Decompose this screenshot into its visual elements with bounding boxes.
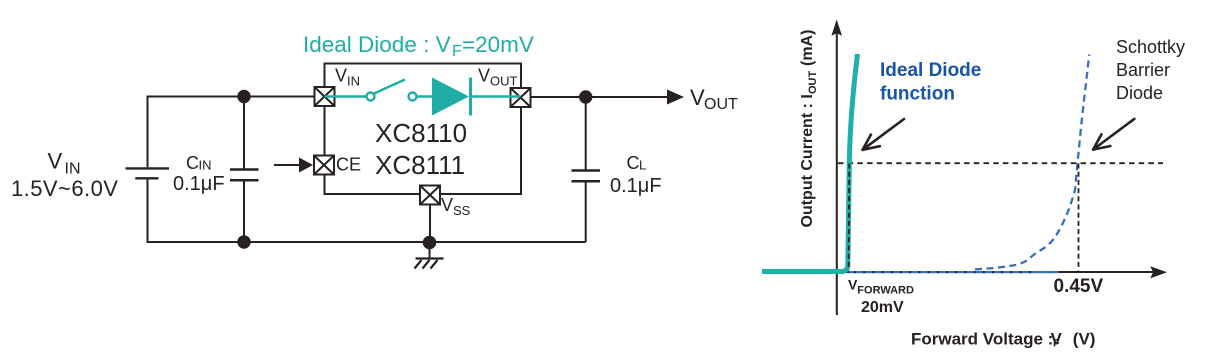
schottky diode curve (blue dashed): [849, 55, 1089, 273]
svg-text:L: L: [639, 158, 646, 173]
ideal diode curve (teal): [762, 54, 858, 272]
y-axis: [836, 28, 838, 315]
svg-text:OUT: OUT: [704, 96, 738, 113]
junction: VSS / bottom rail: [423, 236, 437, 250]
wire: CL bottom to bottom rail: [585, 182, 587, 242]
svg-text:V: V: [690, 85, 705, 110]
svg-text:C: C: [186, 153, 199, 173]
wire: CIN top to top rail: [243, 97, 245, 169]
junction: VOUT rail / CL: [579, 90, 592, 103]
IC U1 XC8110/XC8111 body: [325, 64, 522, 195]
wire: CL top: [585, 97, 587, 170]
label "Ideal Diode function": [880, 60, 981, 105]
svg-text:CE: CE: [336, 154, 361, 174]
wire: battery top to top rail: [147, 97, 149, 168]
junction: bottom rail / CIN: [237, 235, 250, 248]
y-axis arrowhead: [831, 20, 842, 36]
svg-text:Barrier: Barrier: [1116, 60, 1170, 80]
node VIN source label: [11, 149, 118, 201]
svg-text:F: F: [452, 43, 462, 60]
output arrowhead: [667, 90, 684, 105]
wire: bottom rail: [147, 241, 586, 243]
svg-text:Schottky: Schottky: [1116, 37, 1185, 57]
svg-text:V: V: [48, 149, 63, 174]
wire: battery bottom to bottom rail: [147, 180, 149, 244]
svg-text:Diode: Diode: [1116, 83, 1163, 103]
svg-text:V: V: [478, 66, 490, 86]
pin VOUT (crossed box): [511, 88, 531, 107]
value label CL: [610, 153, 662, 197]
switch SW1: [367, 80, 417, 101]
svg-text:0.45V: 0.45V: [1054, 276, 1104, 297]
CE input arrow: [274, 158, 313, 173]
schottky curve tail on axis (solid blue): [849, 271, 1059, 273]
pin VIN (crossed box): [315, 87, 335, 106]
node VOUT output label: [690, 85, 738, 113]
wire: VOUT pin to output arrow: [531, 96, 669, 98]
wire: VSS pin to ground: [429, 205, 431, 243]
x-axis label "Forward Voltage : VF (V)": [911, 330, 1095, 350]
wire (teal): switch to diode: [417, 95, 434, 97]
value label CIN: [173, 153, 225, 195]
x-axis arrowhead: [1150, 266, 1167, 278]
wire: top rail battery to VIN pin: [147, 96, 315, 98]
svg-text:IN: IN: [65, 161, 81, 178]
svg-text:Ideal Diode: Ideal Diode: [880, 60, 981, 81]
svg-text:Forward Voltage :: Forward Voltage :: [911, 330, 1053, 349]
svg-text:SS: SS: [453, 203, 471, 218]
title label "Ideal Diode : VF=20mV": [303, 32, 534, 60]
svg-text:Ideal Diode : V: Ideal Diode : V: [303, 32, 451, 57]
svg-text:V: V: [335, 66, 347, 86]
svg-text:XC8110: XC8110: [375, 118, 467, 148]
schottky curve rising part (dashed): [975, 55, 1089, 270]
dashed 0.45V marker: [1078, 164, 1080, 271]
svg-text:0.1μF: 0.1μF: [173, 173, 225, 195]
annotation arrow to ideal curve: [863, 119, 904, 150]
svg-text:(V): (V): [1073, 330, 1096, 349]
svg-text:(mA): (mA): [799, 30, 816, 66]
x-axis: [836, 271, 1153, 273]
y-axis label "Output Current : IOUT (mA)": [799, 30, 819, 228]
diode D1 (ideal diode): [432, 78, 472, 116]
pin VSS (crossed box): [420, 186, 440, 205]
svg-text:F: F: [1053, 338, 1060, 350]
svg-text:FORWARD: FORWARD: [857, 285, 914, 297]
svg-text:1.5V~6.0V: 1.5V~6.0V: [11, 176, 118, 201]
part number label: [375, 118, 467, 180]
wire: CIN bottom to bottom rail: [243, 181, 245, 242]
capacitor CL: [572, 171, 601, 182]
pin label VIN: [335, 66, 360, 89]
svg-text:=20mV: =20mV: [462, 32, 534, 57]
svg-text:OUT: OUT: [807, 71, 819, 95]
dashed current level line: [838, 162, 1163, 164]
junction: top rail / CIN: [237, 90, 250, 103]
wire: junction to ground symbol: [429, 242, 431, 259]
svg-text:OUT: OUT: [490, 74, 518, 89]
pin label VSS: [441, 195, 471, 218]
svg-text:0.1μF: 0.1μF: [610, 175, 662, 197]
ground: [415, 259, 444, 269]
wire (teal): VIN pin to switch: [325, 95, 367, 97]
pin label VOUT: [478, 66, 518, 89]
label VFORWARD 20mV: [848, 277, 914, 317]
battery V1: [126, 168, 170, 178]
pin CE (crossed box): [314, 156, 334, 175]
svg-text:IN: IN: [199, 158, 212, 173]
svg-text:C: C: [627, 153, 640, 173]
capacitor CIN: [230, 170, 259, 181]
svg-text:XC8111: XC8111: [375, 150, 465, 180]
label "Schottky Barrier Diode": [1116, 37, 1185, 103]
svg-text:Output Current : I: Output Current : I: [799, 94, 816, 227]
axis tick marks through tail: [854, 271, 1032, 273]
svg-text:V: V: [441, 195, 453, 215]
svg-text:20mV: 20mV: [861, 299, 904, 316]
annotation arrow to schottky curve: [1093, 119, 1134, 150]
svg-text:IN: IN: [347, 74, 360, 89]
wire (teal): diode to VOUT pin: [472, 95, 521, 97]
svg-text:function: function: [880, 84, 955, 105]
dashed VF marker at 20mV: [848, 164, 851, 271]
